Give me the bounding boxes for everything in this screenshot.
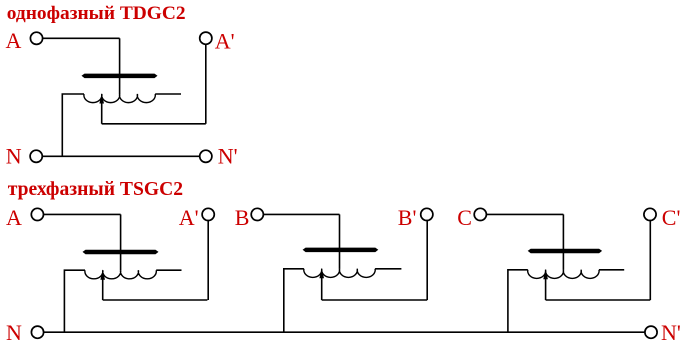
wire terminal B to transformer T3 input: [264, 213, 340, 215]
terminal N (three-phase): [31, 326, 43, 338]
wire terminal A to transformer T2 input: [44, 213, 121, 215]
winding of T1 (single-phase variac): [84, 94, 155, 103]
winding of T2 (phase A variac): [85, 270, 156, 279]
wire terminal C to transformer T4 input: [487, 213, 564, 215]
terminal A' (three-phase): [202, 208, 214, 220]
label A' (three-phase): [179, 205, 199, 230]
svg-text:однофазный TDGC2: однофазный TDGC2: [7, 3, 186, 24]
terminal C: [474, 208, 486, 220]
wire terminal C' down to T4 wiper wire: [649, 221, 651, 300]
wire from line terminal into T1 (single-phase variac) winding tap: [119, 38, 121, 94]
title: однофазный TDGC2: [7, 3, 186, 24]
terminal N' (single-phase): [200, 150, 212, 162]
label C (phase C): [457, 205, 472, 230]
label N (neutral, single-phase): [6, 143, 22, 168]
svg-text:A': A': [179, 205, 199, 230]
terminal B: [251, 208, 263, 220]
core bar of T4 (phase C variac): [528, 249, 602, 254]
wire terminal A' down to wiper wire: [205, 44, 207, 123]
svg-text:B': B': [398, 205, 417, 230]
winding of T3 (phase B variac): [304, 269, 375, 278]
wire from T2 (phase A variac) winding left end down to neutral bus: [64, 270, 85, 332]
wire terminal A' down to T2 wiper wire: [207, 221, 209, 300]
svg-text:C': C': [662, 205, 681, 230]
wire from line terminal into T2 (phase A variac) winding tap: [120, 214, 122, 270]
svg-text:N': N': [661, 320, 681, 343]
wiper wire of T4 (phase C variac) to output terminal: [546, 299, 651, 301]
svg-text:B: B: [235, 205, 250, 230]
label A' (output, single-phase): [215, 29, 235, 54]
wiper arrow of T1 (single-phase variac): [99, 93, 104, 124]
neutral bus wire N to N' (three-phase): [44, 331, 645, 333]
terminal N' (three-phase): [645, 326, 657, 338]
core bar of T3 (phase B variac): [303, 248, 379, 253]
svg-text:N: N: [6, 320, 22, 343]
wire stub from T4 (phase C variac) winding right end: [599, 269, 624, 271]
winding of T4 (phase C variac): [528, 270, 599, 279]
terminal B': [421, 208, 433, 220]
svg-text:C: C: [457, 205, 472, 230]
wire stub from T3 (phase B variac) winding right end: [375, 268, 401, 270]
svg-text:N': N': [218, 144, 238, 169]
label A (phase A, three-phase): [6, 205, 22, 230]
wire from T1 (single-phase variac) winding left end down to neutral bus: [62, 94, 84, 156]
svg-text:трехфазный TSGC2: трехфазный TSGC2: [8, 179, 183, 200]
wire from line terminal into T4 (phase C variac) winding tap: [562, 214, 564, 269]
wire terminal B' down to T3 wiper wire: [426, 221, 428, 300]
terminal C': [644, 208, 656, 220]
wire from T3 (phase B variac) winding left end down to neutral bus: [284, 269, 304, 332]
wire from line terminal into T3 (phase B variac) winding tap: [339, 214, 341, 268]
label C': [662, 205, 681, 230]
label N' (single-phase): [218, 144, 238, 169]
svg-text:A: A: [6, 205, 22, 230]
wiper arrow of T4 (phase C variac): [543, 269, 548, 300]
wire from T4 (phase C variac) winding left end down to neutral bus: [508, 270, 528, 332]
terminal N (single-phase): [30, 150, 42, 162]
terminal A (three-phase): [31, 208, 43, 220]
wire stub from T2 (phase A variac) winding right end: [156, 269, 181, 271]
wiper wire of T1 (single-phase variac) to output terminal: [102, 123, 206, 125]
label B': [398, 205, 417, 230]
terminal A (single-phase): [30, 32, 42, 44]
core bar of T1 (single-phase variac): [82, 74, 158, 79]
svg-text:N: N: [6, 143, 22, 168]
neutral wire N to N' (single-phase): [43, 155, 200, 157]
wiper arrow of T3 (phase B variac): [319, 268, 324, 300]
core bar of T2 (phase A variac): [83, 250, 159, 255]
wiper wire of T3 (phase B variac) to output terminal: [322, 299, 428, 301]
label B (phase B): [235, 205, 250, 230]
terminal A' (single-phase): [200, 32, 212, 44]
svg-text:A': A': [215, 29, 235, 54]
title: трехфазный TSGC2: [8, 179, 183, 200]
label N' (three-phase): [661, 320, 681, 345]
wiper wire of T2 (phase A variac) to output terminal: [103, 299, 208, 301]
svg-text:A: A: [6, 28, 22, 53]
wire terminal A to transformer T1 input: [43, 37, 120, 39]
wiper arrow of T2 (phase A variac): [100, 269, 105, 300]
label N (neutral, three-phase): [6, 320, 22, 345]
wire stub from T1 (single-phase variac) winding right end: [155, 93, 181, 95]
label A (phase input, single-phase): [6, 28, 22, 53]
